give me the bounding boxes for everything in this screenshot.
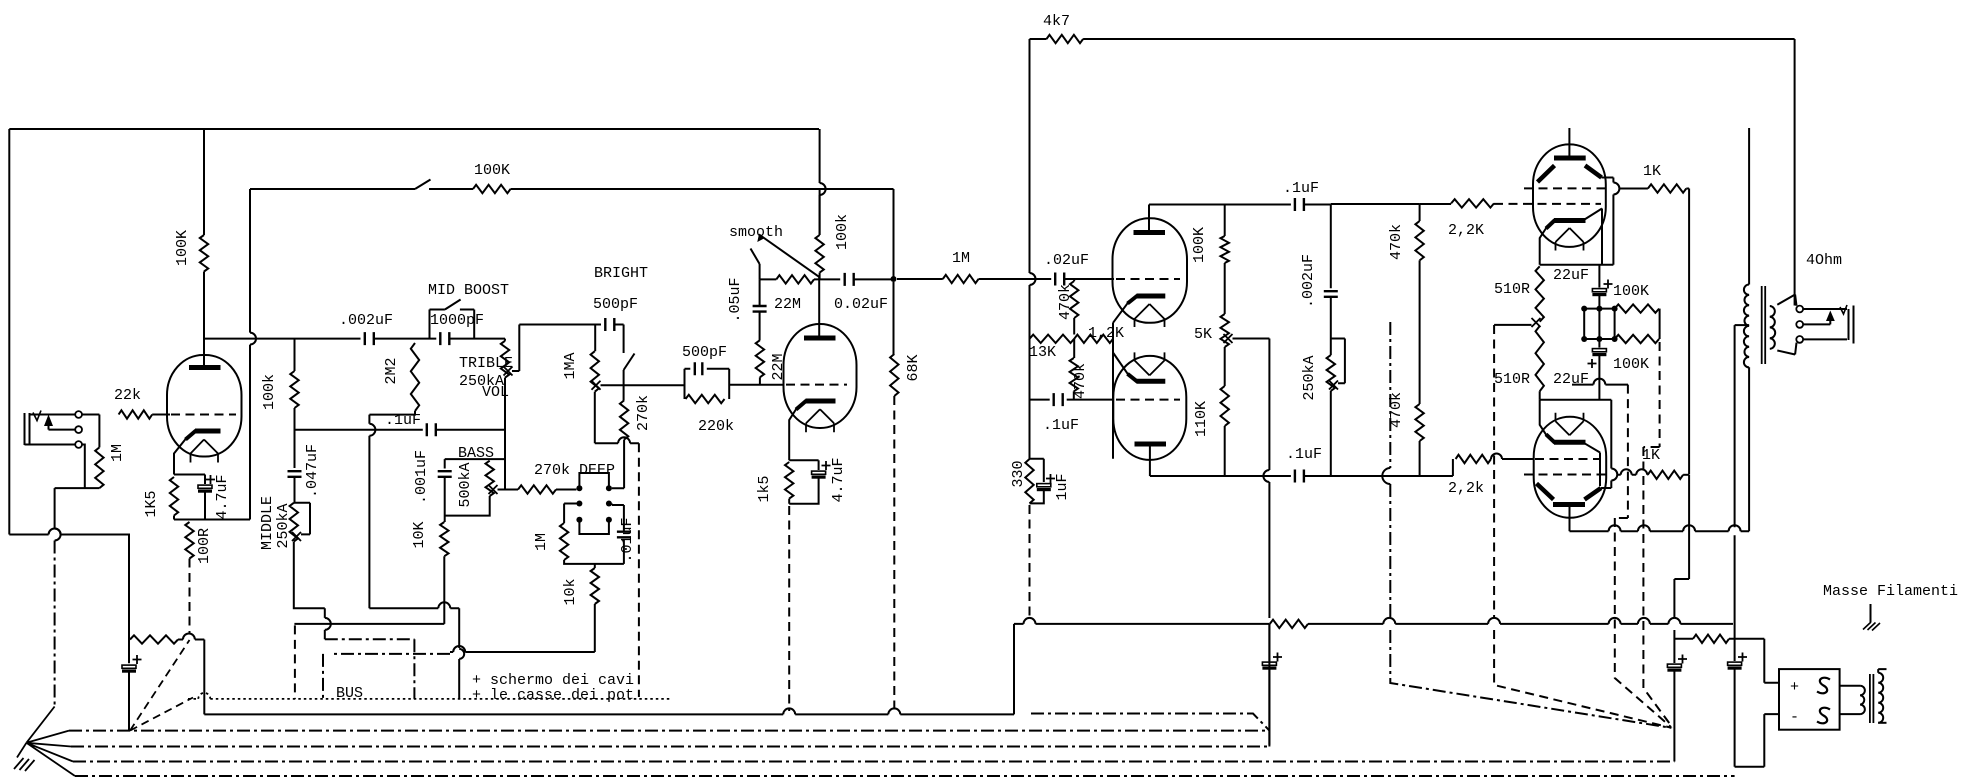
tube V6 cathode <box>1546 434 1586 443</box>
wire sleeve down <box>82 445 85 489</box>
wire 4k7 to jack <box>1083 39 1795 306</box>
label 1MA vol <box>562 352 579 379</box>
rail ground B <box>71 746 1269 748</box>
capacitor 500pF coupling <box>695 362 703 375</box>
tube V2 cathode <box>796 401 836 410</box>
tube V3 envelope <box>1113 218 1188 322</box>
svg-text:330: 330 <box>1010 460 1027 487</box>
terminal speaker sleeve <box>1796 336 1803 343</box>
label 1M deep <box>533 533 550 551</box>
potentiometer 5K <box>1221 314 1229 347</box>
ground dashdot x294 <box>294 625 296 699</box>
label 1uF <box>1054 473 1071 500</box>
wire 270k lower <box>612 440 624 489</box>
wire B+ dropper left <box>129 639 131 641</box>
label 100k tone <box>261 374 278 410</box>
svg-text:2,2K: 2,2K <box>1448 222 1484 239</box>
svg-text:.1uF: .1uF <box>385 412 421 429</box>
pot VOL wiper <box>592 381 601 390</box>
label 22uF lower <box>1553 371 1589 388</box>
jack out arrow <box>1826 311 1835 322</box>
svg-text:13K: 13K <box>1029 344 1056 361</box>
wire 100R dashed ground <box>189 559 191 634</box>
potentiometer BASS 500kA <box>486 461 494 496</box>
label 10k deep <box>562 578 579 605</box>
wire V2 cathode node <box>789 459 818 461</box>
capacitor .002uF <box>365 332 374 345</box>
wire 330 dashed ground <box>1029 505 1031 618</box>
label 100k smooth <box>834 214 851 250</box>
resistor 2,2K upper <box>1451 199 1494 207</box>
svg-text:.1uF: .1uF <box>1043 417 1079 434</box>
transformer PT primary <box>1878 669 1886 723</box>
svg-text:100K: 100K <box>474 162 510 179</box>
wire bright right <box>614 325 623 354</box>
svg-text:270k: 270k <box>635 395 652 431</box>
terminal jack tip <box>75 411 82 418</box>
label .001uF <box>413 450 430 504</box>
wire speaker tip <box>1803 308 1847 310</box>
resistor 10K bass <box>440 522 448 556</box>
tube V6 plate lead <box>1569 505 1571 532</box>
wire plate string V1 top <box>203 129 205 235</box>
resistor 100K bias upper <box>1615 304 1660 312</box>
capacitor 22uF lower <box>1592 339 1606 400</box>
tube V3 cathode <box>1128 296 1166 304</box>
pot TRIBLE wiper <box>504 367 513 376</box>
wire vol wiper line <box>601 384 685 386</box>
wire V2 cathode dashed ground <box>788 506 790 711</box>
svg-text:1K: 1K <box>1642 447 1660 464</box>
resistor 510R lower <box>1536 326 1544 391</box>
ground diag preamp 2 <box>130 698 193 731</box>
wire treble wiper <box>512 325 519 372</box>
wire dropper main left <box>1674 638 1693 640</box>
tube V6 beam right <box>1585 488 1602 500</box>
svg-text:10k: 10k <box>562 578 579 605</box>
terminal jack sleeve <box>75 441 82 448</box>
wire speaker ring <box>1803 320 1830 324</box>
svg-text:VOL: VOL <box>482 384 509 401</box>
label BASS <box>458 445 494 462</box>
svg-text:2,2k: 2,2k <box>1448 480 1484 497</box>
pot MIDDLE wiper <box>292 532 301 541</box>
tube V4 cathode <box>1128 374 1166 382</box>
switch BRIGHT lever <box>624 354 635 371</box>
label 22k <box>114 387 141 404</box>
wire 68K dashed ground <box>893 396 895 711</box>
resistor 270k vertical <box>620 400 628 439</box>
wire B+ left border <box>8 129 10 535</box>
tube V6 beam left <box>1537 484 1554 500</box>
svg-text:.002uF: .002uF <box>339 312 393 329</box>
resistor 22M horizontal <box>776 275 814 283</box>
wire plate node line <box>204 338 361 340</box>
wire 250kA bottom <box>1330 391 1332 476</box>
label 250kA middle <box>275 503 292 548</box>
svg-text:MIDDLE: MIDDLE <box>259 496 276 550</box>
rectifier AC squiggle 2 <box>1817 708 1830 724</box>
ground dashdot x1391 <box>1382 322 1671 728</box>
capacitor .001uF <box>438 471 452 477</box>
wire V6 cathode rail <box>1540 399 1612 401</box>
label 0.02uF <box>834 296 888 313</box>
terminal jack ring <box>75 426 82 433</box>
wire deep dashed drop <box>638 443 640 697</box>
wire junction down 68K <box>893 189 895 354</box>
wire 2,2K to tube (dashed) <box>1494 203 1601 205</box>
potentiometer MIDDLE 250kA <box>290 503 298 542</box>
tube V2 plate lead <box>818 277 820 338</box>
tube V3 plate lead <box>1148 205 1150 233</box>
capacitor filter C1 plus <box>1678 655 1687 664</box>
svg-text:22k: 22k <box>114 387 141 404</box>
wire dropper main right <box>1729 639 1779 683</box>
jack tip switch notch <box>33 411 41 421</box>
svg-text:510R: 510R <box>1494 371 1530 388</box>
label 470k upper power <box>1388 224 1405 260</box>
label 2,2k lower <box>1448 480 1484 497</box>
wire .1uF to grid <box>1067 399 1114 401</box>
resistor 1M deep <box>560 523 568 560</box>
wire dropper right <box>178 634 204 715</box>
svg-text:10K: 10K <box>411 521 428 548</box>
switch DEEP contact 4 <box>606 501 612 507</box>
capacitor 22uF upper plus <box>1604 280 1613 289</box>
svg-text:4.7uF: 4.7uF <box>214 474 231 519</box>
tube V1 plate <box>189 365 221 370</box>
capacitor .1uF PI <box>1054 393 1063 406</box>
label 220k <box>698 418 734 435</box>
shield box B <box>323 654 450 699</box>
switch DEEP contact 2 <box>606 485 612 491</box>
label DEEP <box>579 462 615 479</box>
wire 22M to cap <box>814 278 840 280</box>
tube V2 heater <box>806 409 834 432</box>
wire 100K to 5K <box>1224 263 1226 314</box>
resistor 13K <box>1030 335 1075 343</box>
capacitor 1uF plus <box>1046 474 1055 483</box>
label 1K5 <box>143 490 160 517</box>
wire 5K wiper hop y476 <box>1263 470 1269 618</box>
wire 100K bias link <box>1659 309 1661 339</box>
wire cap to junction <box>854 278 894 280</box>
label 4k7 <box>1043 13 1070 30</box>
wire 1000p to treble <box>449 338 505 340</box>
wire deep mid-left <box>564 504 579 524</box>
wire main filter return <box>1735 669 1779 767</box>
svg-text:5K: 5K <box>1194 326 1212 343</box>
box 500pF-220k left <box>684 369 686 399</box>
wire y189 to V2 junction <box>511 188 894 190</box>
capacitor main filter plus <box>1738 653 1747 662</box>
svg-text:1M: 1M <box>109 444 126 462</box>
wire MIDDLE ground <box>294 542 325 609</box>
resistor 470k PI lower <box>1070 339 1078 400</box>
svg-text:500pF: 500pF <box>682 344 727 361</box>
svg-text:250kA: 250kA <box>1301 355 1318 400</box>
tube V5 cathode right lead <box>1585 209 1603 265</box>
tube V4 plate lead <box>1149 444 1151 476</box>
svg-text:0.02uF: 0.02uF <box>834 296 888 313</box>
wire main node drop <box>1734 325 1736 661</box>
tube V3 grid (dashed) <box>1116 278 1180 280</box>
label 1K lower <box>1642 447 1660 464</box>
svg-text:1K5: 1K5 <box>143 490 160 517</box>
capacitor 4.7uF V2 plus <box>822 461 831 470</box>
wire .01uF top <box>612 504 624 533</box>
label 510R upper <box>1494 281 1530 298</box>
capacitor 22uF lower plus <box>1588 359 1597 368</box>
wire .002 to pot <box>1330 297 1332 355</box>
svg-text:1K: 1K <box>1643 163 1661 180</box>
label 100K bias upper <box>1613 283 1649 300</box>
wire 100k bottom <box>294 408 296 468</box>
wire OT secondary horn <box>1777 295 1796 355</box>
label 22M vertical <box>770 353 787 380</box>
wire grid line y279 <box>760 278 777 280</box>
wire 4.7uF V2 bottom <box>789 478 818 504</box>
wire .05uF leads <box>759 279 761 340</box>
wire ground node y488 <box>55 487 100 489</box>
svg-text:470k: 470k <box>1072 363 1089 399</box>
capacitor filter C1 <box>1667 664 1681 670</box>
wire V1 plate lead <box>203 272 205 368</box>
wire deep bottom bridge <box>579 520 609 534</box>
rectifier minus <box>1790 709 1799 726</box>
potentiometer VOL 1MA <box>591 325 599 392</box>
wire vol bottom <box>595 392 639 444</box>
resistor 1k5 V2 <box>785 462 793 499</box>
rectifier plus <box>1790 679 1799 696</box>
wire 10K ground <box>443 556 445 624</box>
wire smooth lever <box>751 249 760 265</box>
label smooth <box>729 224 783 241</box>
label 10K bass <box>411 521 428 548</box>
svg-text:1000pF: 1000pF <box>430 312 484 329</box>
tube V5 plate <box>1554 156 1586 161</box>
tube V1 cathode <box>186 431 221 440</box>
capacitor .02uF PI <box>1055 273 1064 286</box>
svg-text:100K: 100K <box>1191 227 1208 263</box>
svg-text:1M: 1M <box>952 250 970 267</box>
svg-text:.01uF: .01uF <box>619 517 636 562</box>
junction bias box dots <box>1581 306 1617 342</box>
potentiometer 250kA presence <box>1327 355 1335 391</box>
svg-text:-: - <box>1790 709 1799 726</box>
tube V4 envelope <box>1113 356 1186 460</box>
wire jack sleeve <box>25 444 76 446</box>
wire PI lower grid line <box>1030 399 1050 401</box>
wire 1K5 bottom <box>173 516 175 520</box>
wire rectifier to trafo - <box>1840 713 1861 715</box>
svg-text:100R: 100R <box>196 528 213 564</box>
wire bias box <box>1584 309 1614 339</box>
tube V6 cathode right lead <box>1585 443 1601 486</box>
tube V5 g2 (dashed) <box>1524 187 1609 189</box>
svg-text:22uF: 22uF <box>1553 267 1589 284</box>
wire switch feed y189 <box>250 188 473 190</box>
wire 10k ground <box>450 604 595 652</box>
rail ground A <box>69 730 1269 732</box>
terminal speaker ring <box>1796 321 1803 328</box>
label MIDDLE <box>259 496 276 550</box>
transformer OT core <box>1762 286 1766 364</box>
capacitor PI filter <box>1262 662 1276 668</box>
wire .001 bottom <box>444 477 446 522</box>
wire 510R junction tap <box>1494 324 1531 326</box>
wire bass wiper line <box>498 489 519 491</box>
svg-text:.002uF: .002uF <box>1300 254 1317 308</box>
svg-text:68K: 68K <box>905 354 922 381</box>
wire 470k lower to line <box>1419 441 1421 476</box>
svg-text:220k: 220k <box>698 418 734 435</box>
rail ground C <box>73 761 1674 763</box>
label 5K <box>1194 326 1212 343</box>
resistor 10k deep <box>591 568 599 604</box>
wire box to V2 grid <box>729 384 784 386</box>
label 1M coupling <box>952 250 970 267</box>
label .047uF <box>304 444 321 498</box>
resistor 110K <box>1221 347 1229 476</box>
capacitor main filter <box>1728 662 1742 668</box>
tube V6 plate <box>1553 502 1585 507</box>
svg-text:TRIBLE: TRIBLE <box>459 355 513 372</box>
wire screen tap <box>1619 188 1648 190</box>
wire 1M right <box>979 278 1052 280</box>
resistor 100K switch-line <box>473 185 511 193</box>
wire .1uF to treble line <box>436 429 505 431</box>
jack switch arrow <box>44 415 75 430</box>
terminal speaker tip <box>1796 306 1803 313</box>
wire .1uF to grid line <box>1304 204 1331 206</box>
wire 270k deep to switch <box>556 489 576 491</box>
tube V2 plate <box>804 336 836 341</box>
resistor 220k <box>686 395 725 403</box>
tube V1 heater <box>191 440 219 463</box>
resistor 100k tone <box>290 371 298 408</box>
wire 470k upper ground <box>1419 260 1421 404</box>
ground filament <box>1863 604 1880 631</box>
svg-text:.02uF: .02uF <box>1044 252 1089 269</box>
label 1000pF <box>430 312 484 329</box>
wire 4.7uF bottom <box>204 492 206 520</box>
ground dashdot x54 <box>54 541 56 708</box>
tube V4 heater <box>1135 352 1165 375</box>
wire 4.7uF top <box>204 475 206 485</box>
svg-text:100K: 100K <box>1613 356 1649 373</box>
switch DEEP bail <box>579 473 609 488</box>
transformer OT secondary <box>1770 306 1775 349</box>
resistor 470k PI upper <box>1070 279 1078 318</box>
wire cathode bottom rail <box>174 519 250 521</box>
wire heater link <box>1572 379 1628 385</box>
wire x250 drop <box>250 189 256 520</box>
svg-text:100k: 100k <box>834 214 851 250</box>
resistor 100R <box>185 522 193 559</box>
wire treble top <box>504 339 506 341</box>
svg-text:+: + <box>1790 679 1799 696</box>
svg-text:1k5: 1k5 <box>756 475 773 502</box>
label 1M input <box>109 444 126 462</box>
resistor 1K upper <box>1648 184 1686 192</box>
tube V5 beam right <box>1585 166 1602 178</box>
resistor 1,2K <box>1074 335 1113 343</box>
label .01uF <box>619 517 636 562</box>
pot BASS wiper <box>489 485 498 494</box>
jack J1 plug <box>25 413 30 445</box>
wire .1uF tone line <box>295 429 423 431</box>
svg-text:BUS: BUS <box>336 685 363 702</box>
svg-text:Masse Filamenti: Masse Filamenti <box>1823 583 1958 600</box>
label 250kA treble <box>459 373 504 390</box>
svg-text:.1uF: .1uF <box>1286 446 1322 463</box>
wire 22k to grid <box>152 414 170 416</box>
resistor 22M vertical <box>756 340 764 377</box>
capacitor .01uF <box>617 532 631 538</box>
jack out plug <box>1849 306 1854 344</box>
capacitor 1000pF <box>440 332 449 345</box>
tube V6 heater <box>1556 413 1584 436</box>
wire screen rail down <box>1674 475 1689 619</box>
resistor dropper PI <box>1270 620 1308 628</box>
wire 1K lower to rail <box>1683 474 1689 476</box>
svg-text:2M2: 2M2 <box>383 357 400 384</box>
resistor 2,2k lower <box>1456 455 1491 463</box>
label MID BOOST <box>428 282 509 299</box>
rectifier box <box>1779 669 1840 730</box>
wire 1K to screen rail <box>1686 189 1689 475</box>
label 68K <box>905 354 922 381</box>
resistor 100K PI <box>1221 205 1229 264</box>
wire B+ bus upper <box>1014 618 1269 624</box>
switch DEEP contact 5 <box>576 517 582 523</box>
capacitor 1uF <box>1037 484 1051 490</box>
tube V6 screen lead <box>1601 400 1617 488</box>
wire 4.7uF V2 top <box>818 460 820 470</box>
pot 250kA bracket <box>1331 339 1345 384</box>
tube V1 cathode lead <box>174 439 186 475</box>
label Masse Filamenti <box>1823 583 1958 600</box>
label 1k5 V2 <box>756 475 773 502</box>
wire PI node drop <box>1268 624 1270 661</box>
label 100R <box>196 528 213 564</box>
label BUS <box>336 685 363 702</box>
wire OT primary bottom lead <box>1748 367 1750 531</box>
tube V3 heater <box>1135 304 1165 327</box>
box 500pF-220k right <box>728 369 730 399</box>
wire filter C1 ground <box>1673 671 1675 762</box>
label 470k PI upper <box>1057 284 1074 320</box>
wire border bottom to dropper <box>9 529 129 664</box>
capacitor .1uF tone <box>427 423 436 436</box>
wire treble bottom <box>504 378 506 490</box>
resistor 68K <box>890 354 898 396</box>
label .02uF PI <box>1044 252 1089 269</box>
tube V3 cathode lead <box>1113 303 1128 459</box>
wire 2M2 bottom <box>369 411 415 415</box>
svg-text:4.7uF: 4.7uF <box>830 457 847 502</box>
wire 2M2 ground lower <box>369 602 464 699</box>
label .1uF tone <box>385 412 421 429</box>
wire PI filter ground <box>1268 669 1270 745</box>
label 470k PI lower <box>1072 363 1089 399</box>
tube V2 envelope <box>784 324 857 428</box>
resistor 1M coupling <box>943 275 979 283</box>
svg-text:1uF: 1uF <box>1054 473 1071 500</box>
capacitor preamp filter plus <box>133 655 142 664</box>
label VOL <box>482 384 509 401</box>
